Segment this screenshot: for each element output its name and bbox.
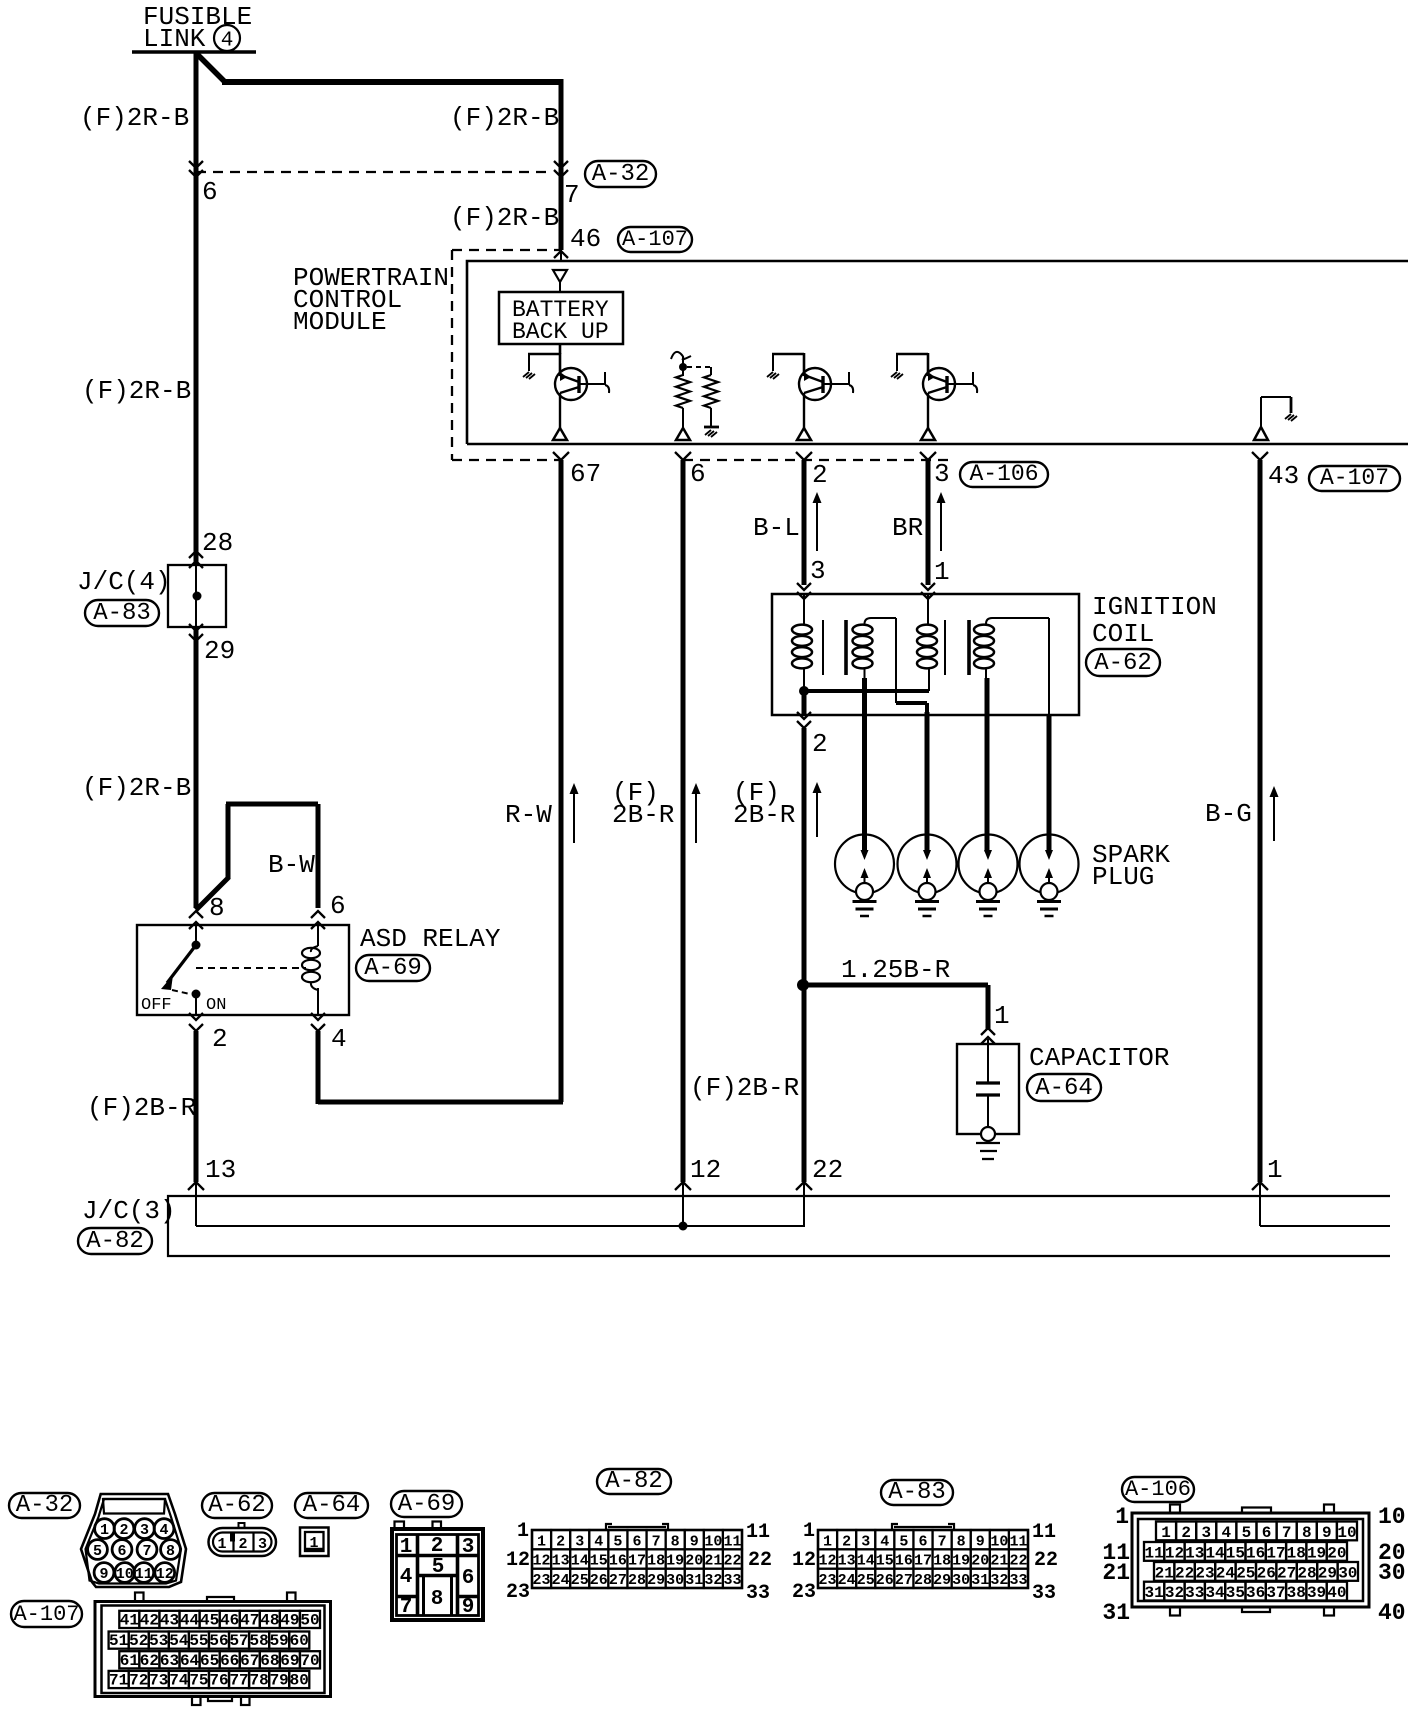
connector label A-64 bottom (295, 1493, 368, 1518)
svg-text:11: 11 (1032, 1521, 1056, 1544)
A-83 pin 7 (933, 1530, 952, 1550)
svg-text:1: 1 (803, 1520, 815, 1543)
A-82 pin 19 (666, 1549, 685, 1569)
A-83 pin 1 (818, 1530, 837, 1550)
wire 2B-R from coil pin 2 down (802, 728, 807, 1182)
wire (F)2R-B top horizontal branch (222, 79, 561, 85)
label (F) 2B-R at coil (733, 778, 795, 830)
svg-text:14: 14 (857, 1553, 875, 1570)
A-82 pin 15 (589, 1549, 608, 1569)
svg-text:18: 18 (1287, 1544, 1306, 1562)
pin 46 arrow into PCM (554, 251, 568, 258)
A-106 pin 15 (1225, 1542, 1245, 1562)
A-32 pin 5 (88, 1540, 108, 1560)
A-83 pin 24 (837, 1569, 856, 1589)
A-83 pin 28 (913, 1569, 932, 1589)
A-82 pin 10 (704, 1530, 723, 1550)
transistor Q3 (ignition driver 2) (891, 353, 977, 440)
svg-text:23: 23 (1195, 1564, 1214, 1582)
svg-text:1.25B-R: 1.25B-R (841, 955, 950, 985)
A-107 pin 76 (209, 1671, 229, 1690)
svg-text:2B-R: 2B-R (733, 800, 795, 830)
crossing arrows at A-32 pin 7 (554, 161, 568, 177)
A-107 pin 62 (139, 1651, 159, 1670)
svg-text:25: 25 (857, 1572, 875, 1589)
svg-text:A-107: A-107 (1320, 465, 1389, 491)
svg-text:78: 78 (250, 1672, 269, 1690)
A-82 pin 13 (551, 1549, 570, 1569)
A-32 pin 12 (155, 1563, 175, 1583)
svg-text:9: 9 (1322, 1524, 1332, 1542)
svg-text:33: 33 (1032, 1582, 1056, 1605)
svg-text:20: 20 (971, 1553, 989, 1570)
svg-text:23: 23 (819, 1572, 837, 1589)
svg-text:10: 10 (704, 1533, 722, 1550)
svg-text:2: 2 (812, 460, 828, 490)
A-107 pin 75 (189, 1671, 209, 1690)
wire B-G from pin 43 to J/C(3) (1258, 460, 1263, 1182)
A-107 pin 54 (169, 1632, 189, 1651)
A-32 pin 1 (95, 1519, 115, 1539)
wire B-W horizontal (226, 802, 318, 807)
svg-text:10: 10 (1378, 1504, 1406, 1530)
svg-text:24: 24 (838, 1572, 856, 1589)
wire right branch vertical to pin 46 (559, 79, 564, 250)
A-107 pin 72 (129, 1671, 149, 1690)
powertrain control module label (293, 263, 449, 337)
svg-text:A-83: A-83 (888, 1479, 946, 1506)
A-107 pin 64 (180, 1651, 200, 1670)
svg-text:A-32: A-32 (16, 1492, 74, 1519)
svg-text:PLUG: PLUG (1092, 862, 1154, 892)
secondary winding 2 (974, 618, 1049, 714)
A-82 pin 23 (532, 1569, 551, 1589)
A-82 pin 3 (570, 1530, 589, 1550)
svg-text:3: 3 (810, 556, 826, 586)
junction connector J/C(3) outline (168, 1196, 1390, 1256)
svg-text:7: 7 (1282, 1524, 1292, 1542)
A-82 pin 9 (685, 1530, 704, 1550)
svg-text:(F)2R-B: (F)2R-B (450, 203, 559, 233)
svg-text:47: 47 (240, 1612, 259, 1630)
svg-text:1: 1 (934, 557, 950, 587)
core bars coil 1 (823, 620, 846, 675)
transistor Q2 (ignition driver 1) (767, 353, 853, 440)
svg-text:15: 15 (876, 1553, 894, 1570)
A-82 pin 28 (627, 1569, 646, 1589)
pin 13 arrow (188, 1182, 204, 1190)
A-106 pin 25 (1236, 1562, 1256, 1582)
A-106 pin 34 (1205, 1582, 1225, 1602)
svg-text:12: 12 (792, 1549, 816, 1572)
svg-text:A-64: A-64 (303, 1492, 361, 1519)
transistor Q1 (battery backup driver) (523, 353, 609, 440)
svg-text:48: 48 (260, 1612, 279, 1630)
A-82 pin 16 (608, 1549, 627, 1569)
A-107 pin 49 (280, 1611, 300, 1630)
coil pin 1 arrows (921, 583, 935, 599)
A-107 pin 45 (200, 1611, 220, 1630)
svg-text:23: 23 (792, 1581, 816, 1604)
svg-text:1: 1 (517, 1520, 529, 1543)
svg-text:37: 37 (1266, 1584, 1285, 1602)
svg-text:28: 28 (1297, 1564, 1316, 1582)
svg-text:72: 72 (129, 1672, 148, 1690)
svg-text:CAPACITOR: CAPACITOR (1029, 1043, 1169, 1073)
svg-text:11: 11 (1145, 1544, 1164, 1562)
relay coil (302, 925, 320, 1015)
svg-text:75: 75 (189, 1672, 208, 1690)
svg-text:9: 9 (462, 1596, 475, 1619)
svg-text:6: 6 (918, 1533, 927, 1550)
svg-text:19: 19 (666, 1553, 684, 1570)
A-106 pin 20 (1327, 1542, 1347, 1562)
svg-text:32: 32 (704, 1572, 722, 1589)
A-82 pin 33 (723, 1569, 742, 1589)
A-83 corner numbers (792, 1520, 1058, 1605)
svg-text:14: 14 (1205, 1544, 1225, 1562)
svg-text:1: 1 (1161, 1524, 1171, 1542)
PCM inner box (467, 261, 1408, 444)
svg-text:38: 38 (1287, 1584, 1306, 1602)
svg-text:10: 10 (116, 1566, 134, 1583)
A-106 pin 18 (1286, 1542, 1306, 1562)
connector label A-82 bottom (597, 1469, 671, 1494)
connector label A-83 bottom (881, 1480, 953, 1505)
A-32 pin 7 (137, 1540, 157, 1560)
pin 28 arrows (189, 551, 203, 568)
label (F) 2B-R column (612, 778, 674, 830)
spark plug 4 (1020, 835, 1079, 917)
connector A-64 pinout (300, 1528, 329, 1557)
svg-text:25: 25 (571, 1572, 589, 1589)
svg-text:ASD RELAY: ASD RELAY (360, 924, 501, 954)
capacitor pin 1 arrows (981, 1028, 995, 1044)
A-83 pin 19 (952, 1549, 971, 1569)
svg-text:33: 33 (1185, 1584, 1204, 1602)
wire BR from pin 3 to ignition coil pin 1 (926, 460, 931, 585)
svg-text:69: 69 (280, 1652, 299, 1670)
A-107 pin 42 (139, 1611, 159, 1630)
svg-text:50: 50 (300, 1612, 319, 1630)
wire secondary1 lower link (896, 703, 927, 715)
connector A-32 dashed boundary (196, 171, 553, 173)
A-32 pin 11 (134, 1563, 154, 1583)
wire (F)2B-R relay pin2 to J/C(3) (194, 1031, 199, 1182)
A-107 pin 66 (220, 1651, 240, 1670)
A-106 pin 7 (1277, 1522, 1297, 1542)
svg-text:3: 3 (934, 459, 950, 489)
svg-text:5: 5 (93, 1543, 102, 1560)
svg-text:3: 3 (861, 1533, 870, 1550)
resistor feed wire (682, 356, 684, 367)
svg-text:30: 30 (666, 1572, 684, 1589)
svg-text:7: 7 (652, 1533, 661, 1550)
svg-text:28: 28 (202, 528, 233, 558)
svg-text:18: 18 (933, 1553, 951, 1570)
svg-text:8: 8 (671, 1533, 680, 1550)
A-83 pin 9 (971, 1530, 990, 1550)
svg-text:67: 67 (570, 459, 601, 489)
connector label A-62 main (1086, 649, 1160, 676)
svg-text:53: 53 (149, 1632, 168, 1650)
fusible link label (143, 2, 252, 54)
svg-text:1: 1 (309, 1535, 318, 1552)
svg-text:17: 17 (628, 1553, 646, 1570)
svg-text:10: 10 (1337, 1524, 1356, 1542)
A-83 pin 17 (913, 1549, 932, 1569)
svg-text:32: 32 (1165, 1584, 1184, 1602)
svg-text:12: 12 (533, 1553, 551, 1570)
svg-text:11: 11 (1009, 1533, 1027, 1550)
ASD relay box (137, 925, 349, 1015)
svg-text:2: 2 (812, 729, 828, 759)
A-107 pin 61 (119, 1651, 139, 1670)
node resistor junction (679, 363, 687, 371)
svg-text:29: 29 (647, 1572, 665, 1589)
svg-text:12: 12 (506, 1549, 530, 1572)
battery back up triangle input (553, 250, 567, 292)
A-106 pin 29 (1317, 1562, 1337, 1582)
A-83 pin 33 (1009, 1569, 1028, 1589)
svg-text:29: 29 (204, 636, 235, 666)
A-106 pin 40 (1327, 1582, 1347, 1602)
A-82 pin 17 (627, 1549, 646, 1569)
svg-text:16: 16 (609, 1553, 627, 1570)
svg-text:A-107: A-107 (13, 1602, 79, 1627)
connector label A-82 main (78, 1228, 152, 1254)
svg-text:11: 11 (723, 1533, 741, 1550)
A-82 pin 14 (570, 1549, 589, 1569)
svg-text:BACK UP: BACK UP (512, 319, 609, 345)
node relay switch top (192, 941, 201, 950)
svg-text:(F)2B-R: (F)2B-R (87, 1093, 196, 1123)
A-107 pin 47 (240, 1611, 260, 1630)
svg-text:27: 27 (1277, 1564, 1296, 1582)
svg-text:1: 1 (100, 1522, 109, 1539)
J/C(3) internal bus (196, 1182, 805, 1226)
svg-text:46: 46 (220, 1612, 239, 1630)
svg-text:8: 8 (431, 1588, 444, 1611)
svg-text:4: 4 (159, 1522, 168, 1539)
svg-text:16: 16 (1246, 1544, 1265, 1562)
A-106 pin 2 (1176, 1522, 1196, 1542)
A-83 pin 6 (913, 1530, 932, 1550)
A-106 pin 30 (1338, 1562, 1358, 1582)
connector label A-107 top (618, 227, 692, 252)
battery back up box (499, 292, 623, 345)
svg-text:28: 28 (914, 1572, 932, 1589)
svg-text:3: 3 (140, 1522, 149, 1539)
wire capacitor feed (986, 985, 991, 1030)
A-83 pin 29 (933, 1569, 952, 1589)
spark plug wire 2 (925, 712, 930, 852)
svg-text:7: 7 (142, 1543, 151, 1560)
A-32 pin 10 (115, 1563, 135, 1583)
svg-text:27: 27 (609, 1572, 627, 1589)
spark plug wire 3 (985, 678, 990, 852)
wire R-W from pin 67 (559, 460, 564, 1102)
capacitor C1 plates (976, 1083, 1000, 1128)
A-83 pin 14 (856, 1549, 875, 1569)
node primary common junction (799, 686, 809, 696)
svg-text:1: 1 (1267, 1155, 1283, 1185)
svg-text:IGNITION: IGNITION (1092, 592, 1217, 622)
A-83 pin 4 (875, 1530, 894, 1550)
svg-text:B-L: B-L (753, 513, 800, 543)
svg-text:52: 52 (129, 1632, 148, 1650)
A-83 pin 16 (894, 1549, 913, 1569)
svg-text:70: 70 (300, 1652, 319, 1670)
connector label A-62 bottom (202, 1493, 272, 1518)
A-107 pin 60 (289, 1632, 309, 1651)
connector label A-64 main (1027, 1074, 1101, 1101)
svg-text:4: 4 (400, 1566, 413, 1589)
flow arrow B-L (816, 500, 818, 551)
svg-text:64: 64 (180, 1652, 200, 1670)
svg-text:5: 5 (1242, 1524, 1252, 1542)
svg-text:45: 45 (200, 1612, 219, 1630)
connector label A-32 bottom (9, 1493, 80, 1518)
A-107 pin 41 (119, 1611, 139, 1630)
A-32 pin 8 (161, 1540, 181, 1560)
svg-text:J/C(3): J/C(3) (82, 1196, 176, 1226)
connector A-83 pinout body (818, 1524, 1028, 1588)
svg-text:(F)2R-B: (F)2R-B (80, 103, 189, 133)
A-107 pin 58 (249, 1632, 269, 1651)
svg-text:30: 30 (1338, 1564, 1357, 1582)
A-82 pin 31 (685, 1569, 704, 1589)
svg-text:5: 5 (613, 1533, 622, 1550)
svg-text:67: 67 (240, 1652, 259, 1670)
svg-text:20: 20 (1327, 1544, 1346, 1562)
A-107 pin 73 (149, 1671, 169, 1690)
connector label A-107 right (1309, 466, 1400, 491)
svg-text:21: 21 (704, 1553, 722, 1570)
PCM dashed boundary (452, 250, 950, 460)
spark plug wire 4 (1047, 714, 1052, 852)
A-83 pin 21 (990, 1549, 1009, 1569)
svg-text:(F)2R-B: (F)2R-B (450, 103, 559, 133)
A-107 pin 52 (129, 1632, 149, 1651)
A-107 pin 77 (229, 1671, 249, 1690)
svg-text:17: 17 (1266, 1544, 1285, 1562)
wire (F)2B-R from pin 6 to J/C(3) (681, 460, 686, 1182)
svg-text:80: 80 (290, 1672, 309, 1690)
svg-text:74: 74 (169, 1672, 189, 1690)
svg-text:12: 12 (690, 1155, 721, 1185)
A-82 pin 20 (685, 1549, 704, 1569)
A-106 pin 3 (1196, 1522, 1216, 1542)
svg-text:43: 43 (1268, 461, 1299, 491)
A-106 pin 8 (1297, 1522, 1317, 1542)
svg-text:2: 2 (1181, 1524, 1191, 1542)
svg-text:9: 9 (99, 1566, 108, 1583)
coil pin 2 arrows (797, 712, 811, 728)
A-106 pin 4 (1216, 1522, 1236, 1542)
pin 29 arrows (189, 624, 203, 641)
svg-text:4: 4 (1222, 1524, 1232, 1542)
flow arrow (F)2B-R (695, 791, 697, 843)
svg-text:8: 8 (1302, 1524, 1312, 1542)
A-107 pin 56 (209, 1632, 229, 1651)
svg-text:A-69: A-69 (364, 955, 422, 982)
A-83 pin 10 (990, 1530, 1009, 1550)
svg-text:11: 11 (135, 1566, 153, 1583)
svg-text:19: 19 (952, 1553, 970, 1570)
svg-text:33: 33 (723, 1572, 741, 1589)
chassis ground under right resistor (704, 427, 719, 437)
resistor R1 (676, 367, 718, 408)
A-106 pin 28 (1297, 1562, 1317, 1582)
relay pin 6 arrows (311, 911, 325, 929)
svg-text:6: 6 (1262, 1524, 1272, 1542)
A-107 pin 68 (260, 1651, 280, 1670)
svg-text:41: 41 (120, 1612, 139, 1630)
A-107 pin 80 (289, 1671, 309, 1690)
primary winding 1 (792, 594, 812, 691)
A-106 pin 12 (1164, 1542, 1184, 1562)
svg-text:8: 8 (957, 1533, 966, 1550)
svg-text:2: 2 (119, 1522, 128, 1539)
A-32 pin 3 (135, 1519, 155, 1539)
resistor pair top squiggle (671, 352, 691, 360)
A-83 pin 18 (933, 1549, 952, 1569)
A-107 pin 55 (189, 1632, 209, 1651)
A-82 pin 4 (589, 1530, 608, 1550)
svg-text:68: 68 (260, 1652, 279, 1670)
A-83 pin 26 (875, 1569, 894, 1589)
svg-text:6: 6 (462, 1567, 475, 1590)
svg-text:5: 5 (432, 1556, 445, 1579)
A-32 pin 2 (114, 1519, 134, 1539)
A-107 pin 74 (169, 1671, 189, 1690)
A-82 pin 18 (647, 1549, 666, 1569)
svg-text:6: 6 (117, 1543, 126, 1560)
coil pin 3 arrows (797, 583, 811, 599)
svg-text:6: 6 (690, 459, 706, 489)
svg-text:58: 58 (250, 1632, 269, 1650)
A-107 pin 69 (280, 1651, 300, 1670)
svg-text:7: 7 (400, 1596, 413, 1619)
A-82 pin 11 (723, 1530, 742, 1550)
relay pin 2 arrows (189, 1013, 203, 1031)
wire (F)2R-B left main vertical (194, 52, 199, 565)
svg-text:65: 65 (200, 1652, 219, 1670)
svg-text:32: 32 (990, 1572, 1008, 1589)
svg-text:A-62: A-62 (1094, 650, 1152, 677)
svg-text:56: 56 (209, 1632, 228, 1650)
A-107 pin 48 (260, 1611, 280, 1630)
svg-text:2: 2 (431, 1535, 444, 1558)
A-106 pin 19 (1306, 1542, 1326, 1562)
svg-text:R-W: R-W (505, 800, 552, 830)
A-82 corner numbers (506, 1520, 772, 1605)
svg-text:76: 76 (209, 1672, 228, 1690)
svg-text:5: 5 (899, 1533, 908, 1550)
A-106 pin 11 (1144, 1542, 1164, 1562)
svg-text:15: 15 (1226, 1544, 1245, 1562)
svg-text:(F)2B-R: (F)2B-R (690, 1073, 799, 1103)
svg-text:10: 10 (990, 1533, 1008, 1550)
svg-text:43: 43 (160, 1612, 179, 1630)
node 1.25B-R junction (797, 979, 809, 991)
A-32 pin 9 (94, 1563, 114, 1583)
svg-text:51: 51 (109, 1632, 128, 1650)
flow arrow B-G (1273, 794, 1275, 841)
svg-text:31: 31 (1102, 1600, 1130, 1626)
earth ground under capacitor (976, 1143, 1000, 1159)
